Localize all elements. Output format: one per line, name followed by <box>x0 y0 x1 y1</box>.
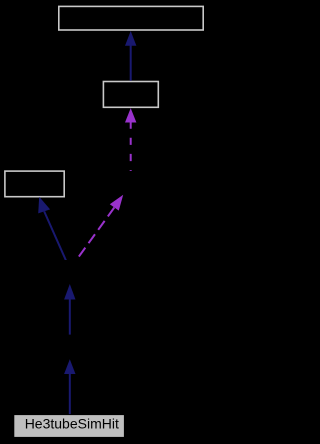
hidden node C (black label, invisible) <box>51 336 89 359</box>
hidden node A (black label, invisible) <box>112 171 150 194</box>
svg-text:He3tubeSimHit: He3tubeSimHit <box>25 416 119 432</box>
inheritance arrow (solid) from hidden node C up to hidden node B <box>64 284 75 335</box>
class box: left base class (label hidden) <box>5 171 64 197</box>
usage arrow (dashed diagonal) from hidden node B up-right to hidden node A <box>77 195 124 260</box>
inheritance arrow (solid) from middle box up to top box <box>125 31 136 81</box>
class box: He3tubeSimHit (current class, gray fill) <box>14 415 125 438</box>
usage arrow (dashed) from hidden node A up to middle box <box>125 108 136 171</box>
inheritance arrow (solid diagonal) from hidden node B up-left to left box <box>38 197 66 261</box>
class box: middle base class (label hidden) <box>103 82 158 108</box>
inheritance arrow (solid) from He3tubeSimHit up to hidden node C <box>64 359 75 415</box>
hidden node B (black label, invisible) <box>55 260 93 283</box>
class box: top base class (label hidden) <box>59 6 203 30</box>
